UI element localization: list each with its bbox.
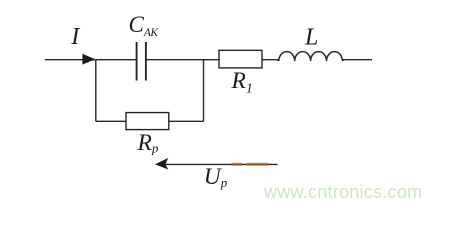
wire: R1 to inductor L [262,59,279,61]
orange highlight segment 2 on Up line [247,163,269,166]
svg-text:R1: R1 [231,68,253,96]
svg-text:Up: Up [204,164,228,190]
wire: capacitor right plate to node B [146,59,204,61]
arrow head of Up (points left) [155,158,168,170]
current arrow I head [82,54,95,65]
wire: node B down (right side of parallel loop) [203,60,205,122]
wire: node B to resistor R1 [204,59,220,61]
wire: node A to capacitor left plate [96,59,137,61]
svg-text:Rp: Rp [137,130,159,156]
wire: bottom loop left segment [96,120,126,122]
svg-text:CAK: CAK [129,12,160,39]
capacitor C_AK plates [137,42,146,81]
svg-text:www.cntronics.com: www.cntronics.com [263,182,422,202]
orange highlight segment 1 on Up line [232,163,243,166]
wire: left input lead [45,59,96,61]
wire: inductor to right output lead [343,59,373,61]
wire: bottom loop right segment [169,120,204,122]
resistor Rp body [126,113,169,130]
inductor L coils [277,52,344,61]
resistor R1 body [219,50,262,68]
wire: Up reference line [163,163,278,165]
orange highlight overlay tint on Up line [232,163,269,165]
svg-text:L: L [304,25,318,51]
wire: node A down (left side of parallel loop) [95,60,97,122]
svg-text:I: I [70,24,80,50]
